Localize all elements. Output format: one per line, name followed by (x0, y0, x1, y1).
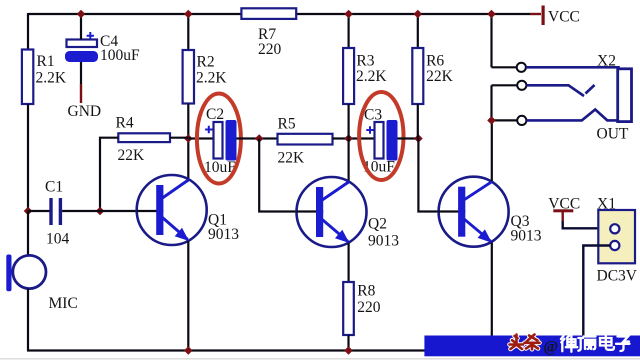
wire: Q3 emitter to ground (491, 243, 493, 352)
svg-text:Q2: Q2 (368, 216, 387, 233)
watermark banner (424, 336, 640, 357)
connector X2 (phone jack) (492, 53, 632, 143)
svg-text:R8: R8 (357, 283, 375, 300)
resistor R5 (278, 134, 333, 145)
resistor R2 (183, 50, 194, 104)
svg-text:R6: R6 (426, 53, 444, 70)
capacitor C4 (65, 32, 140, 64)
decorative gray line at bottom (0, 358, 640, 360)
svg-text:9013: 9013 (511, 228, 542, 245)
highlight ellipse around C2 (197, 94, 241, 184)
svg-text:C1: C1 (45, 179, 63, 196)
wire: Q2 base leg (259, 139, 318, 212)
wire: R3 to Q2 collector (348, 104, 350, 181)
wire: left rail to MIC (27, 211, 29, 256)
wire: ground rail (27, 349, 500, 351)
svg-text:C3: C3 (364, 107, 382, 124)
svg-text:R5: R5 (278, 116, 296, 133)
svg-text:C2: C2 (206, 106, 224, 123)
ground GND (80, 84, 82, 103)
svg-text:2.2K: 2.2K (196, 70, 227, 87)
resistor R3 (343, 48, 354, 104)
wire: Q3 collector to jack (491, 120, 493, 181)
node: rail / R2 (184, 10, 193, 19)
watermark text 头条 (510, 335, 540, 350)
wire: R8 to ground (347, 335, 349, 351)
node: C2 / R5 / Q2 base (255, 134, 264, 143)
wire: left rail top segment (27, 13, 29, 50)
svg-text:@: @ (544, 339, 558, 356)
resistor R4 (118, 133, 170, 142)
svg-text:100uF: 100uF (100, 47, 140, 64)
node: ground / Q1 emitter (184, 346, 193, 355)
node: rail / jack (487, 10, 496, 19)
svg-text:R1: R1 (37, 53, 55, 70)
wire: rail to jack sleeve (490, 14, 492, 67)
resistor R8 (343, 282, 354, 335)
svg-text:OUT: OUT (597, 126, 629, 143)
wire: rail to R3 (348, 14, 350, 48)
wire: maroon stub to VCC symbol (530, 13, 541, 15)
wire: top VCC rail (28, 13, 530, 15)
connector X1 (597, 196, 638, 285)
capacitor C2 (204, 106, 237, 176)
node: jack tip / Q3 collector (487, 116, 496, 125)
node: Q1 collector / C2 / R4 (184, 134, 193, 143)
svg-text:9013: 9013 (368, 233, 399, 250)
wire: VCC to X1 pin 1 (563, 221, 611, 228)
svg-text:DC3V: DC3V (597, 268, 638, 285)
node: R3 / Q2 collector / C3 (344, 134, 353, 143)
svg-text:R3: R3 (356, 53, 374, 70)
wire: Q1 collector node to C2 (188, 137, 213, 139)
wire: R2 to Q1 collector node (187, 104, 189, 180)
svg-text:22K: 22K (278, 150, 306, 167)
highlight ellipse around C3 (359, 92, 403, 180)
svg-text:2.2K: 2.2K (356, 68, 387, 85)
transistor Q1 (137, 175, 207, 245)
resistor R7 (241, 8, 296, 19)
svg-text:R4: R4 (116, 115, 134, 132)
wire: Q3 base leg (418, 139, 459, 212)
node: rail / C4 (77, 10, 86, 19)
wire: rail to R2 (187, 14, 189, 50)
capacitor C1 (45, 179, 70, 248)
svg-text:VCC: VCC (548, 9, 580, 26)
node: rail / R3 (344, 10, 353, 19)
transistor Q3 (439, 177, 509, 247)
wire: R4 left leg (100, 138, 118, 211)
svg-text:X1: X1 (597, 196, 616, 213)
wire: Q1 emitter to ground (187, 241, 189, 351)
wire: C1 left lead (28, 210, 50, 212)
node: C3 / R6 / Q3 base (414, 134, 423, 143)
wire: Q2 emitter to R8 (348, 243, 350, 282)
wire: R5 to C3 (333, 137, 375, 139)
capacitor C3 (363, 107, 398, 176)
svg-text:220: 220 (258, 41, 282, 58)
svg-text:220: 220 (357, 299, 381, 316)
microphone MIC (6, 255, 77, 313)
wire: C2 to Q2 base node (237, 137, 278, 139)
transistor Q2 (297, 177, 367, 247)
svg-text:22K: 22K (426, 68, 454, 85)
wire: R4 right leg (170, 137, 188, 139)
svg-text:22K: 22K (118, 147, 146, 164)
node: R4 / C1 / Q1 base (96, 207, 105, 216)
svg-text:GND: GND (68, 103, 102, 120)
svg-text:2.2K: 2.2K (36, 70, 67, 87)
wire: left rail middle segment (27, 104, 29, 211)
power symbol VCC (X1 supply) (548, 196, 580, 222)
node: ground / R8 (344, 346, 353, 355)
wire: C3 to R6 node (398, 137, 419, 139)
svg-text:X2: X2 (597, 53, 616, 70)
wire: rail to C4 (80, 14, 82, 40)
power symbol VCC (top) (542, 6, 545, 26)
wire: R6 to Q3 base node (417, 104, 419, 139)
wire: X1 pin 2 to ground (583, 246, 610, 337)
svg-text:104: 104 (46, 231, 70, 248)
node: rail / R6 (414, 10, 423, 19)
svg-text:R2: R2 (197, 54, 215, 71)
node: left rail / C1 junction (24, 207, 33, 216)
wire: rail to R6 (417, 14, 419, 48)
svg-text:MIC: MIC (49, 295, 78, 312)
svg-text:9013: 9013 (208, 226, 239, 243)
wire: C4 to GND (80, 62, 82, 84)
resistor R6 (412, 48, 423, 104)
resistor R1 (22, 50, 33, 105)
wire: MIC to ground rail (27, 289, 29, 351)
wire: C1 to Q1 base (62, 210, 158, 212)
